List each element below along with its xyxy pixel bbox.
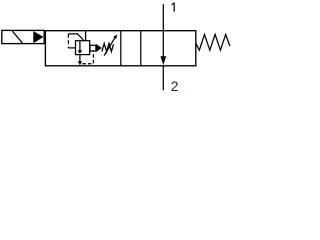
seat triangle [96, 44, 102, 52]
flow line lower [162, 66, 164, 91]
pilot line top loop [69, 34, 83, 41]
svg-text:2: 2 [171, 78, 179, 94]
relief valve internal arrow [79, 41, 81, 50]
solenoid armature triangle [33, 31, 43, 43]
drain line with arrow [79, 55, 81, 62]
divider line right [140, 31, 142, 66]
relief spring [102, 43, 114, 51]
main valve body box [45, 31, 195, 66]
relief valve square [76, 41, 90, 55]
flow arrow head [160, 56, 166, 65]
drain dashed L path [82, 51, 93, 63]
seat rectangle [90, 45, 96, 51]
adjustment arrow [104, 37, 115, 55]
port label 1 [172, 3, 175, 12]
flow line upper [162, 4, 164, 56]
divider line left [120, 31, 122, 66]
pilot dashed vertical [67, 34, 69, 48]
solenoid box [2, 30, 44, 43]
pilot supply line from top edge [85, 31, 87, 41]
relief inlet line [68, 47, 75, 49]
solenoid diagonal [12, 31, 22, 43]
main return spring [196, 34, 230, 50]
